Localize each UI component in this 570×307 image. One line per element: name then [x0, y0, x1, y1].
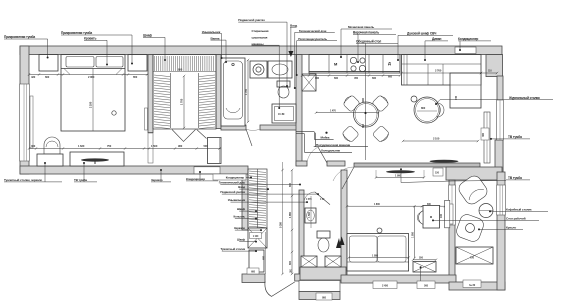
dim dining horizontal [316, 112, 379, 114]
tv stand bedroom [70, 152, 124, 166]
washer dryer column [250, 61, 267, 78]
dim boxed 360 [481, 128, 489, 140]
svg-text:Шкаф: Шкаф [143, 34, 152, 38]
svg-text:1 500: 1 500 [151, 144, 158, 148]
svg-text:Стиральная: Стиральная [252, 29, 269, 33]
svg-text:Умывальник: Умывальник [228, 198, 246, 202]
tv office panel [445, 200, 450, 227]
dim office top [347, 205, 445, 207]
sink wc [305, 208, 316, 223]
closet hatch left [154, 75, 170, 129]
svg-text:2 450: 2 450 [382, 283, 389, 287]
bed dot [112, 111, 116, 115]
dim boxed 150 [433, 168, 443, 176]
closet door [172, 130, 196, 142]
closet door leaf [197, 130, 207, 139]
tv bedroom [81, 158, 109, 161]
wall wc bottom [300, 267, 346, 280]
svg-text:1 470: 1 470 [330, 110, 336, 113]
dim corridor vertical3 [265, 232, 267, 274]
svg-text:500: 500 [204, 144, 209, 148]
washbasin bath [268, 61, 292, 78]
svg-text:Мозаичная панель: Мозаичная панель [348, 25, 374, 29]
toilet wc [317, 231, 330, 238]
dim boxed bottom sofa [373, 281, 397, 289]
dim wc vertical [310, 196, 312, 228]
door kitchen [318, 147, 327, 163]
svg-text:600: 600 [45, 75, 50, 79]
wall right lower [497, 172, 505, 290]
dim office sofa [349, 257, 409, 259]
svg-text:800: 800 [421, 106, 426, 110]
svg-text:2 180: 2 180 [89, 101, 93, 108]
wall left [20, 46, 29, 174]
wall closet/bath divider [216, 55, 221, 129]
svg-text:Стол рабочий: Стол рабочий [506, 217, 526, 221]
dim bath vertical [247, 60, 249, 122]
bench x loggia [456, 247, 493, 264]
wall loggia divider [449, 180, 455, 282]
entrance door [265, 282, 295, 297]
dim living bottom [403, 140, 478, 142]
svg-text:Посудомоечная машина: Посудомоечная машина [316, 143, 350, 147]
svg-text:500: 500 [424, 283, 429, 287]
lamp office [377, 228, 382, 233]
window bedroom left [20, 84, 30, 161]
dim boxed closet 1100 [250, 233, 262, 239]
svg-text:Шкаф: Шкаф [237, 238, 246, 242]
radiator x right wc [325, 256, 341, 267]
closet hatch top [155, 56, 214, 71]
wall office bottom [341, 275, 456, 283]
svg-text:1 700: 1 700 [180, 98, 184, 105]
air conditioner bedroom in wall [194, 167, 220, 174]
svg-text:600: 600 [288, 260, 292, 265]
svg-text:Туалетный столик, зеркало: Туалетный столик, зеркало [4, 178, 42, 182]
dim sofa living [402, 72, 498, 74]
mirror bedroom wall [145, 108, 148, 130]
svg-text:1 500: 1 500 [308, 211, 311, 217]
svg-text:750: 750 [107, 144, 112, 148]
svg-text:Зеркало: Зеркало [234, 226, 245, 230]
dressing table [37, 154, 63, 166]
window loggia right [497, 185, 506, 215]
svg-text:600: 600 [388, 75, 393, 79]
svg-text:ТВ тумба: ТВ тумба [508, 176, 522, 180]
wall kitchen bottom left [296, 161, 307, 166]
stool bedroom [44, 137, 60, 154]
tv stand right wall [484, 112, 490, 163]
bathtub [221, 58, 245, 126]
svg-text:Консоль: Консоль [234, 215, 246, 219]
svg-text:Духовой шкаф СВЧ: Духовой шкаф СВЧ [407, 32, 437, 36]
svg-text:420: 420 [31, 75, 36, 79]
coffee table [414, 97, 440, 123]
dim kitchen counter [302, 75, 400, 77]
wall block living SE [446, 167, 502, 180]
svg-text:1 700: 1 700 [244, 88, 248, 95]
bench x-box corridor [248, 228, 267, 248]
wall right living [497, 76, 503, 172]
wall wc left [299, 190, 304, 274]
corridor closet hatched [248, 169, 267, 228]
desk chair [419, 211, 423, 225]
coffee table loggia [479, 204, 493, 218]
svg-text:Диван: Диван [432, 37, 442, 41]
ottoman office [413, 262, 436, 273]
kitchen counter [309, 55, 400, 73]
air conditioner living in wall [455, 47, 476, 54]
washing machine bath [272, 104, 296, 123]
svg-text:Обеденный стол: Обеденный стол [356, 40, 381, 44]
svg-text:2 060: 2 060 [88, 75, 95, 79]
dining chair NW [342, 94, 360, 112]
desk office [423, 206, 440, 229]
svg-text:Кондиционер: Кондиционер [186, 177, 205, 181]
window loggia divider [449, 185, 456, 225]
bedroom pocket door gap [148, 133, 153, 163]
svg-text:1 900: 1 900 [395, 174, 402, 178]
dining chair SE [372, 125, 390, 143]
svg-text:1 630: 1 630 [78, 144, 85, 148]
sofa living [402, 55, 482, 85]
wall corridor left vertical [242, 174, 248, 230]
wall corridor bottom right stub [295, 274, 304, 281]
svg-text:сушильная: сушильная [252, 36, 268, 40]
svg-text:5 280: 5 280 [278, 221, 282, 228]
svg-text:№ 30: № 30 [469, 283, 476, 287]
dim boxed loggia [463, 280, 481, 288]
dim bedroom top [29, 74, 148, 76]
svg-text:600: 600 [315, 76, 320, 80]
radiator bedroom window [30, 96, 33, 148]
svg-text:Вход: Вход [238, 185, 245, 189]
dim corridor vertical [291, 170, 293, 274]
svg-text:Кофейный столик: Кофейный столик [506, 208, 532, 212]
svg-text:Туалетный столик: Туалетный столик [220, 247, 245, 251]
wall bath bottom right part [260, 125, 301, 130]
svg-text:650: 650 [133, 75, 138, 79]
svg-text:Подвесной унитаз: Подвесной унитаз [238, 18, 265, 22]
svg-text:450: 450 [354, 76, 359, 80]
dim boxed annex [316, 293, 332, 300]
wall top [20, 46, 502, 55]
dining chair SW [341, 125, 359, 143]
svg-text:1 800: 1 800 [372, 253, 379, 257]
nightstand left [39, 55, 58, 71]
svg-text:600: 600 [334, 76, 339, 80]
svg-text:ТВ тумба: ТВ тумба [74, 178, 87, 182]
dim bedroom vertical [92, 80, 94, 131]
svg-text:Прикроватная тумба: Прикроватная тумба [4, 35, 35, 39]
svg-text:Варочная панель: Варочная панель [353, 31, 379, 35]
svg-text:850: 850 [178, 67, 183, 71]
dim boxed bottom ottoman [417, 281, 435, 289]
console corridor [249, 250, 264, 272]
svg-text:Журнальный столик: Журнальный столик [508, 96, 540, 100]
svg-text:1 050: 1 050 [411, 231, 414, 237]
wall bath bottom left part [221, 125, 246, 130]
tv office lens [386, 170, 415, 173]
dim office vertical [414, 206, 416, 258]
toilet bath [277, 81, 290, 87]
svg-text:Шкаф: Шкаф [237, 207, 246, 211]
dim closet aisle [183, 76, 185, 128]
dim bedroom bottom [29, 148, 221, 150]
armchair loggia top [456, 173, 489, 206]
wall divider living/office [354, 163, 480, 167]
svg-text:Ст.М: Ст.М [278, 112, 285, 116]
svg-text:Д: Д [388, 60, 391, 65]
hob burners [350, 57, 356, 63]
svg-text:ТВ тумба: ТВ тумба [508, 135, 522, 139]
dim corridor vertical2 [282, 162, 284, 274]
vase [411, 96, 417, 102]
label ac corridor [213, 174, 246, 180]
wall corridor bottom left [242, 274, 265, 283]
window living right [497, 100, 504, 140]
dining table [354, 102, 379, 127]
svg-text:Гигиенический душ: Гигиенический душ [219, 181, 246, 185]
svg-text:1 800: 1 800 [374, 203, 380, 206]
wall bedroom/closet divider [148, 55, 153, 133]
cabinet vestibule [208, 138, 222, 164]
wall office/wc [341, 170, 347, 282]
dim tv office 1900 [376, 177, 424, 179]
svg-text:Мойка: Мойка [321, 136, 330, 140]
svg-text:600: 600 [372, 76, 377, 80]
dim boxed corridor 600 [247, 268, 259, 274]
svg-text:Кровать: Кровать [84, 37, 96, 41]
wall top-right corner block [486, 55, 503, 77]
wall loggia bottom [449, 282, 505, 290]
svg-text:1 100: 1 100 [253, 235, 259, 238]
svg-text:Кресло: Кресло [506, 226, 516, 230]
door office leaf [342, 167, 354, 189]
radiator x left wc [301, 256, 317, 267]
bed [61, 55, 125, 131]
svg-text:1 850: 1 850 [288, 211, 292, 218]
svg-text:Кондиционер: Кондиционер [226, 176, 245, 180]
svg-text:300: 300 [31, 144, 36, 148]
door bathroom [246, 129, 252, 146]
closet outline [153, 55, 216, 129]
wall bedroom bottom [20, 166, 248, 174]
bed center line [92, 69, 94, 132]
arrow marker wc [336, 238, 341, 248]
side chair crescent [437, 103, 444, 117]
arrow office wall [339, 237, 345, 246]
closet hatch right [199, 75, 215, 129]
wall bath right [296, 55, 302, 166]
svg-text:Кондиционер: Кондиционер [458, 37, 478, 41]
armchair loggia bottom [455, 213, 486, 244]
sofa office [347, 234, 409, 271]
sofa chaise [450, 73, 481, 108]
bed mattress [61, 68, 125, 70]
nightstand right [128, 55, 147, 71]
annex below wc [299, 281, 340, 292]
dining chair NE [372, 94, 390, 112]
svg-text:2 100: 2 100 [433, 137, 440, 141]
svg-text:1 570: 1 570 [306, 198, 312, 201]
wall right pier [495, 140, 503, 172]
svg-text:Подвесной унитаз: Подвесной унитаз [220, 190, 245, 194]
door wc [304, 192, 315, 203]
shaft fridge box [302, 74, 316, 91]
bed pillow left [66, 57, 94, 68]
bed pillow right [96, 57, 123, 68]
tv living [430, 160, 459, 163]
svg-text:960: 960 [178, 144, 183, 148]
svg-text:Прикроватная тумба: Прикроватная тумба [61, 31, 92, 35]
svg-text:Холодильник: Холодильник [321, 149, 341, 153]
wall kitchen bottom right [327, 161, 345, 166]
svg-text:2 760: 2 760 [435, 69, 442, 73]
